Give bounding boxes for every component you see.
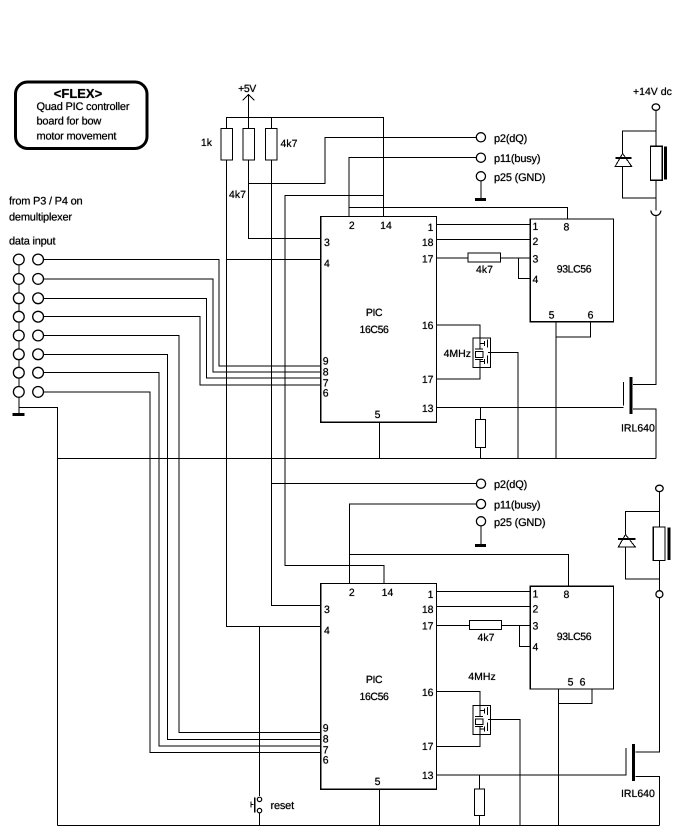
resistor R4 4k7 upper serial	[468, 253, 500, 276]
transistor Q2 IRL640 lower	[621, 744, 655, 800]
ground bar connector	[12, 413, 24, 416]
svg-text:16C56: 16C56	[360, 691, 390, 703]
svg-text:3: 3	[533, 254, 539, 266]
wire motor bottom stub upper	[655, 180, 657, 210]
diode D2 lower	[618, 535, 635, 548]
wire resonator center to ground line	[488, 352, 518, 458]
wire lower PIC pin18 to 93LC56 pin2	[437, 606, 531, 608]
svg-text:3: 3	[324, 604, 330, 616]
wire upper PIC pin17 to resistor	[437, 257, 469, 259]
svg-text:2: 2	[533, 604, 539, 616]
svg-text:demultiplexer: demultiplexer	[9, 212, 72, 224]
svg-text:16: 16	[422, 687, 434, 699]
wire data row7 to lower PIC pin7	[44, 373, 321, 746]
wire to MOSFET drain lower	[635, 598, 659, 752]
wire upper PIC pin16 to resonator	[437, 325, 480, 338]
wire data row6 to lower PIC pin8	[44, 354, 321, 739]
wire upper PIC pin18 to 93LC56 pin2	[437, 239, 531, 241]
transistor Q1 IRL640 upper	[621, 377, 655, 434]
svg-text:13: 13	[422, 403, 434, 415]
wire upper PIC pin1 to 93LC56 pin1	[437, 224, 531, 226]
ground bar p25 lower	[475, 544, 486, 547]
svg-text:p11(busy): p11(busy)	[494, 500, 540, 512]
diode D1 upper	[615, 154, 631, 167]
svg-text:93LC56: 93LC56	[557, 264, 592, 276]
wire resonator to upper PIC pin17	[437, 367, 480, 379]
wire diode branch top upper	[623, 131, 656, 154]
svg-text:reset: reset	[271, 800, 295, 812]
resistor R6 4k7 lower serial	[469, 620, 501, 644]
wire diode branch top lower	[626, 512, 660, 535]
switch SW1 reset	[251, 797, 294, 813]
resistor R1 1k	[201, 129, 233, 161]
svg-text:p25 (GND): p25 (GND)	[494, 517, 545, 529]
note box FLEX title	[16, 82, 148, 149]
resonator X2 4MHz lower	[468, 671, 495, 735]
wire diode bottom to motor bottom upper	[623, 166, 656, 198]
wire bottom ground bus	[57, 825, 659, 827]
svg-text:1: 1	[428, 222, 434, 234]
svg-text:8: 8	[564, 222, 570, 234]
svg-text:board for bow: board for bow	[37, 116, 102, 128]
svg-text:<FLEX>: <FLEX>	[54, 86, 103, 101]
svg-text:14: 14	[382, 587, 394, 599]
svg-text:PIC: PIC	[366, 307, 383, 319]
wire data row3 to upper PIC pin7	[44, 298, 321, 378]
connector break arc upper	[651, 211, 661, 216]
wire lower PIC pin17 to resistor	[437, 624, 470, 626]
motor M2 lower	[653, 527, 669, 561]
wire resonator to lower PIC pin17	[437, 735, 480, 747]
wire upper PIC pin13 to gate	[437, 407, 624, 409]
svg-text:+14V dc: +14V dc	[633, 86, 672, 98]
node p11(busy) lower	[350, 499, 541, 583]
svg-text:2: 2	[533, 236, 539, 248]
svg-text:1k: 1k	[201, 137, 213, 149]
wire lower 93LC56 pins5+6 to ground bus	[558, 689, 592, 826]
svg-text:16C56: 16C56	[360, 324, 390, 336]
svg-text:14: 14	[380, 220, 392, 232]
svg-text:IRL640: IRL640	[621, 423, 655, 435]
svg-text:4: 4	[324, 258, 330, 270]
node p2(dQ) upper	[249, 133, 528, 184]
resonator X1 4MHz upper	[444, 338, 491, 367]
wire upper PIC pin5 to ground line	[378, 422, 380, 458]
svg-text:17: 17	[422, 254, 434, 266]
svg-text:motor movement: motor movement	[37, 131, 117, 143]
svg-text:18: 18	[422, 237, 434, 249]
wire data row1 to upper PIC pin9	[44, 260, 321, 367]
node p11(busy) upper	[349, 153, 540, 217]
resistor R3 4k7	[266, 118, 298, 161]
svg-text:4k7: 4k7	[281, 138, 298, 150]
wire reset branch from pin4 net	[259, 627, 261, 797]
svg-text:IRL640: IRL640	[621, 788, 655, 800]
wire R1 branch to upper PIC pin4	[227, 259, 321, 261]
wire data row4 to upper PIC pin6	[44, 317, 321, 385]
motor M1 upper	[650, 146, 665, 180]
svg-text:3: 3	[324, 237, 330, 249]
svg-text:p2(dQ): p2(dQ)	[494, 133, 527, 145]
node p25(GND) upper	[476, 172, 545, 200]
node p25(GND) lower	[476, 517, 545, 546]
svg-text:17: 17	[422, 741, 434, 753]
wire connector ground to main ground rail	[19, 408, 58, 826]
svg-text:data input: data input	[9, 236, 55, 248]
resistor R7 gate pulldown lower	[475, 775, 485, 826]
svg-text:+5V: +5V	[238, 83, 256, 95]
connector data input circles	[13, 254, 43, 414]
svg-text:Quad PIC controller: Quad PIC controller	[37, 101, 130, 113]
svg-text:18: 18	[422, 604, 434, 616]
IC U3 PIC 16C56 lower	[321, 584, 437, 790]
svg-text:4MHz: 4MHz	[444, 348, 471, 360]
wire upper ground line	[57, 458, 656, 460]
svg-text:1: 1	[428, 589, 434, 601]
svg-text:from P3 / P4 on: from P3 / P4 on	[9, 196, 83, 208]
svg-text:93LC56: 93LC56	[557, 631, 592, 643]
svg-text:1: 1	[533, 221, 539, 233]
svg-text:17: 17	[422, 374, 434, 386]
svg-text:4k7: 4k7	[476, 264, 493, 276]
wire +5V branch to lower half and lower PIC pin14	[285, 196, 384, 584]
wire 93LC56 pins5+6 to ground line	[556, 322, 591, 459]
IC U1 PIC 16C56 upper	[321, 217, 437, 423]
svg-text:6: 6	[323, 388, 329, 400]
svg-text:8: 8	[564, 589, 570, 601]
+5V supply symbol	[238, 83, 256, 129]
svg-text:5: 5	[568, 677, 574, 689]
wire lower PIC pin5 to ground bus	[378, 789, 380, 825]
wire data row8 to lower PIC pin6	[44, 392, 321, 753]
wire reset switch to ground bus	[259, 813, 261, 825]
svg-text:5: 5	[549, 310, 555, 322]
svg-text:p2(dQ): p2(dQ)	[494, 479, 527, 491]
wire MOSFET source to ground bus lower	[635, 776, 659, 825]
svg-text:5: 5	[375, 409, 381, 421]
svg-text:4: 4	[533, 642, 539, 654]
svg-text:2: 2	[349, 220, 355, 232]
wire R1 lead down to lower PIC pin4	[227, 160, 321, 627]
wire MOSFET source to ground line upper	[633, 409, 656, 459]
wire lower PIC pin13 to gate	[437, 774, 626, 776]
node +14V terminal lower	[656, 485, 664, 527]
svg-text:6: 6	[588, 310, 594, 322]
svg-text:1: 1	[533, 589, 539, 601]
svg-text:p11(busy): p11(busy)	[494, 153, 540, 165]
resistor R2 4k7	[229, 129, 255, 202]
svg-text:4k7: 4k7	[478, 632, 495, 644]
svg-text:16: 16	[422, 320, 434, 332]
ground bar p25 upper	[475, 198, 486, 201]
wire resistor to lower 93LC56 pin3 and jog to pin4	[502, 625, 531, 646]
wire lower PIC pin16 to resonator	[437, 692, 480, 706]
node junction terminal lower	[656, 591, 663, 598]
svg-text:6: 6	[323, 755, 329, 767]
wire upper 93LC56 pin8 tie to PIC pin2 net	[349, 208, 568, 220]
node p2(dQ) lower	[271, 479, 527, 491]
wire diode bottom to motor bottom lower	[626, 547, 660, 579]
svg-text:17: 17	[422, 621, 434, 633]
wire resistor to 93LC56 pin3 and jog to pin4	[501, 258, 531, 279]
svg-text:4MHz: 4MHz	[468, 671, 495, 683]
wire data row2 to upper PIC pin8	[44, 279, 321, 372]
wire R3 lead down to lower PIC pin3 with branch to lower p2	[271, 160, 321, 606]
svg-text:p25 (GND): p25 (GND)	[494, 172, 545, 184]
wire motor bottom stub lower	[658, 561, 660, 591]
wire resonator center to ground bus	[488, 720, 520, 826]
svg-text:4: 4	[533, 274, 539, 286]
svg-text:PIC: PIC	[366, 674, 383, 686]
wire lower 93LC56 pin8 tie to PIC pin2 net	[350, 555, 569, 587]
node +14V dc terminal upper	[633, 86, 672, 146]
wire data row5 to lower PIC pin9	[44, 336, 321, 733]
svg-text:13: 13	[422, 770, 434, 782]
wire +5V bus	[227, 118, 384, 217]
svg-text:4k7: 4k7	[229, 189, 246, 201]
wire to MOSFET drain upper	[633, 216, 656, 385]
IC U2 93LC56 upper	[530, 219, 613, 322]
svg-text:6: 6	[580, 677, 586, 689]
IC U4 93LC56 lower	[530, 586, 613, 689]
resistor R5 gate pulldown upper	[475, 408, 485, 459]
wire R2 lead to upper PIC pin3	[249, 160, 321, 239]
svg-text:3: 3	[533, 621, 539, 633]
wire lower PIC pin1 to 93LC56 pin1	[437, 591, 531, 593]
svg-text:5: 5	[375, 776, 381, 788]
svg-text:4: 4	[324, 625, 330, 637]
svg-text:2: 2	[349, 587, 355, 599]
